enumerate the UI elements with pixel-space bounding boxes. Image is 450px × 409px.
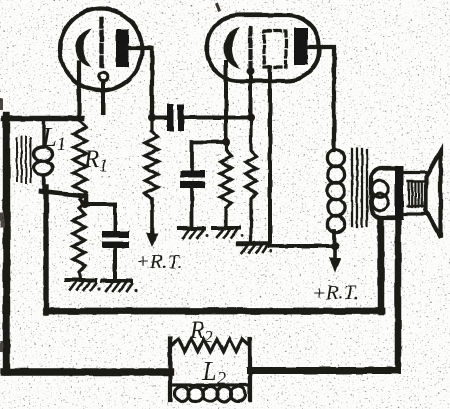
ground G2 xyxy=(102,281,132,291)
wire: L1 bottom bar to cathode junction xyxy=(41,191,86,203)
ground G4 xyxy=(213,228,239,238)
tube V1 filament/cathode crescent xyxy=(76,29,92,68)
transformer T1 primary xyxy=(327,149,344,166)
capacitor C3 (bypass) plates xyxy=(180,171,205,189)
loudspeaker winding (secondary) xyxy=(372,181,389,198)
node E (+HT junction) xyxy=(331,242,339,250)
wire: V1 grid lead (ends free) xyxy=(101,81,105,113)
node B (V2 grid junction) xyxy=(247,114,255,122)
tube V2 screen grid (dashed box) xyxy=(264,31,286,67)
capacitor C2 (coupling) plates xyxy=(167,104,184,131)
resistor R2 (left bracket) xyxy=(168,339,172,400)
loudspeaker magnet frame xyxy=(403,173,425,215)
wire: anode load to +HT arrow xyxy=(150,199,154,233)
ground G5 xyxy=(238,244,267,253)
node C (cathode junction) xyxy=(81,200,89,208)
wire: speaker lead to inner return bus xyxy=(378,221,385,312)
loudspeaker pole piece / voice coil hatch xyxy=(408,182,427,207)
resistor Ra (anode load of V1) xyxy=(145,116,158,199)
scan artifact blobs on left edge xyxy=(0,98,4,352)
loudspeaker driver body xyxy=(371,168,396,218)
wire: grid-coil top bus xyxy=(4,116,82,122)
tube V1 anode plate xyxy=(116,29,129,67)
transformer T1 core xyxy=(352,149,367,227)
tube V2 envelope xyxy=(207,15,319,81)
loudspeaker horn cone xyxy=(426,151,441,238)
tube V1 envelope xyxy=(60,9,142,91)
inductor L1 (grid coil) xyxy=(42,118,45,147)
wire: coupling capacitor to V2 grid node xyxy=(184,116,251,120)
node A (anode / coupling junction) xyxy=(148,114,156,122)
ground G1 xyxy=(66,280,96,290)
arrow to +R.T. (V1) xyxy=(150,233,154,240)
wire: outer bottom bus (right of L2) xyxy=(250,367,398,374)
wire: node D to bypass capacitor C3 xyxy=(192,142,226,170)
resistor Rk1 (bias) xyxy=(73,204,85,278)
wire: outer bottom bus (left of L2) xyxy=(4,368,170,375)
wire: junction to bypass capacitor C1 xyxy=(86,205,115,231)
resistor Rk2 (V2 bias) xyxy=(221,142,232,226)
wire: V1 anode lead to coupling node xyxy=(129,48,152,116)
wire: outer left border xyxy=(3,116,10,372)
tube V2 filament/cathode crescent xyxy=(223,27,240,69)
coupling core hatch beside L1 xyxy=(17,137,31,183)
wire: V2 cathode lead down xyxy=(224,62,228,139)
tube V2 anode plate xyxy=(294,28,308,65)
wire: V2 screen lead down xyxy=(268,67,272,246)
arrow to +R.T. (V2 supply) xyxy=(333,248,337,258)
ground hatch dots xyxy=(97,235,272,292)
tube V1 grid terminal circle xyxy=(99,72,108,81)
resistor R2 / L2 right bracket xyxy=(248,339,252,400)
wire: V2 anode lead to output transformer xyxy=(308,47,334,150)
inductor L2 (reaction coil) xyxy=(170,383,250,386)
wire: V2 grid lead down to node xyxy=(249,75,253,116)
wire: L1 bottom to inner bus (inner box left edge) xyxy=(43,187,48,313)
wire: node A to coupling capacitor xyxy=(152,116,168,120)
ground G3 xyxy=(179,229,204,239)
resistor R1 (grid leak) xyxy=(74,121,87,204)
tube V2 control grid (dashed) xyxy=(248,28,252,66)
tube V2 grid terminal dot xyxy=(247,68,255,76)
tube V1 grid (dashed) xyxy=(99,19,103,71)
resistor R2 xyxy=(172,339,249,352)
wire: speaker lead to outer return bus xyxy=(395,222,402,369)
wire: C1 to ground xyxy=(113,248,117,279)
wire: C3 to ground xyxy=(190,188,194,227)
wire: screen to +HT node xyxy=(270,244,335,248)
wire: inner return bus xyxy=(46,308,382,315)
wire: primary bottom to +HT node xyxy=(332,231,336,246)
resistor Rg2 (V2 grid leak) xyxy=(246,118,257,243)
node D (V2 cathode junction) xyxy=(222,138,230,146)
capacitor C1 (cathode bypass) plates xyxy=(102,231,129,248)
scan artifact dash above V2 xyxy=(217,5,219,10)
wire: V1 cathode lead down to grid-coil bus xyxy=(77,62,81,118)
